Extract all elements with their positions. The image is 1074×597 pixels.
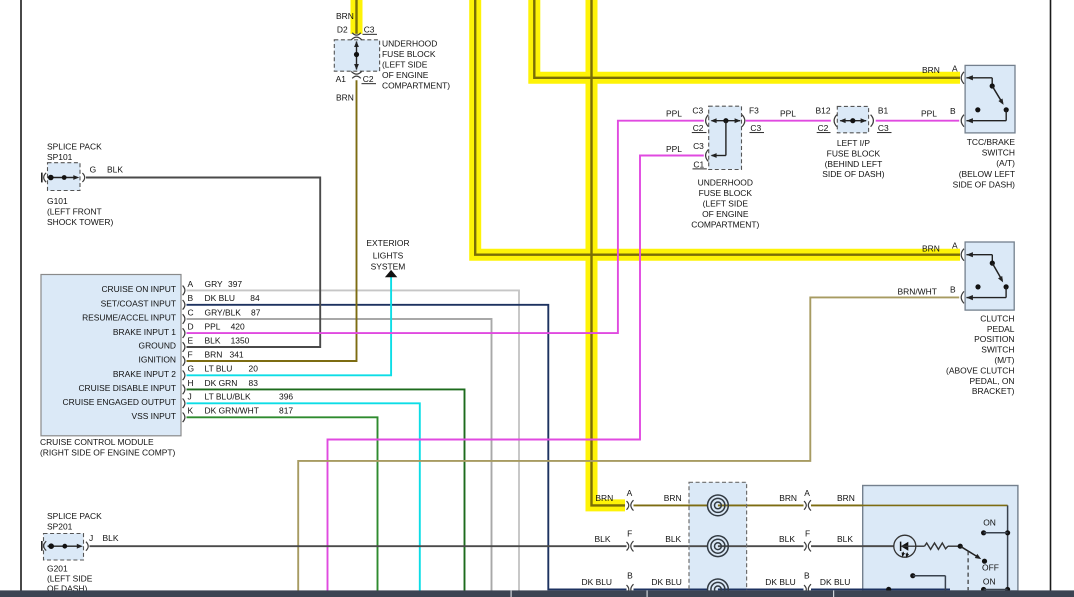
svg-text:CRUISE DISABLE INPUT: CRUISE DISABLE INPUT	[78, 383, 176, 393]
svg-text:PPL: PPL	[921, 109, 937, 119]
svg-text:C3: C3	[692, 106, 703, 116]
svg-text:LT BLU: LT BLU	[205, 364, 233, 374]
svg-text:420: 420	[231, 322, 245, 332]
svg-text:B: B	[950, 106, 956, 116]
svg-text:FUSE BLOCK: FUSE BLOCK	[382, 49, 436, 59]
svg-text:83: 83	[249, 378, 259, 388]
svg-text:(BEHIND LEFT: (BEHIND LEFT	[825, 159, 883, 169]
svg-text:FUSE BLOCK: FUSE BLOCK	[699, 188, 753, 198]
svg-text:G201: G201	[47, 564, 68, 574]
svg-text:SWITCH: SWITCH	[981, 345, 1014, 355]
svg-text:DK BLU: DK BLU	[820, 577, 850, 587]
svg-text:SPLICE PACK: SPLICE PACK	[47, 511, 102, 521]
svg-text:87: 87	[251, 307, 261, 317]
svg-text:EXTERIOR: EXTERIOR	[366, 238, 409, 248]
svg-text:SIDE OF DASH): SIDE OF DASH)	[822, 169, 885, 179]
svg-text:PEDAL, ON: PEDAL, ON	[969, 376, 1014, 386]
svg-text:BLK: BLK	[595, 534, 611, 544]
svg-text:341: 341	[230, 349, 244, 359]
svg-text:BLK: BLK	[103, 533, 119, 543]
svg-text:20: 20	[249, 364, 259, 374]
svg-text:BRN: BRN	[336, 11, 354, 21]
svg-text:PPL: PPL	[205, 322, 221, 332]
svg-text:K: K	[188, 406, 194, 416]
svg-text:(LEFT FRONT: (LEFT FRONT	[47, 206, 102, 216]
svg-text:(A/T): (A/T)	[996, 158, 1015, 168]
svg-text:BRAKE INPUT 1: BRAKE INPUT 1	[113, 327, 176, 337]
svg-text:BLK: BLK	[837, 534, 853, 544]
svg-text:BRN/WHT: BRN/WHT	[898, 286, 937, 296]
svg-text:ON: ON	[983, 576, 996, 586]
svg-text:DK BLU: DK BLU	[205, 293, 235, 303]
svg-text:G: G	[188, 364, 195, 374]
svg-text:SYSTEM: SYSTEM	[371, 261, 406, 271]
svg-text:SPLICE PACK: SPLICE PACK	[47, 142, 102, 152]
svg-text:A: A	[627, 488, 633, 498]
svg-text:B: B	[627, 571, 633, 581]
svg-text:B: B	[188, 293, 194, 303]
svg-text:CLUTCH: CLUTCH	[980, 313, 1014, 323]
svg-text:A: A	[188, 279, 194, 289]
svg-text:397: 397	[228, 279, 242, 289]
svg-text:BRN: BRN	[837, 493, 855, 503]
svg-text:C3: C3	[750, 123, 761, 133]
svg-text:D: D	[188, 322, 194, 332]
svg-text:CRUISE ON INPUT: CRUISE ON INPUT	[101, 284, 176, 294]
svg-text:C2: C2	[818, 123, 829, 133]
svg-text:817: 817	[279, 406, 293, 416]
svg-text:B12: B12	[816, 106, 831, 116]
svg-text:UNDERHOOD: UNDERHOOD	[698, 177, 753, 187]
svg-text:FUSE BLOCK: FUSE BLOCK	[827, 148, 881, 158]
svg-text:BRN: BRN	[664, 493, 682, 503]
svg-text:C2: C2	[363, 74, 374, 84]
svg-text:SET/COAST INPUT: SET/COAST INPUT	[101, 299, 176, 309]
svg-text:DK BLU: DK BLU	[582, 577, 612, 587]
svg-text:E: E	[188, 335, 194, 345]
svg-text:OFF: OFF	[982, 563, 999, 573]
svg-text:C: C	[188, 307, 194, 317]
svg-text:PPL: PPL	[666, 144, 682, 154]
svg-text:COMPARTMENT): COMPARTMENT)	[691, 220, 759, 230]
svg-text:A: A	[952, 64, 958, 74]
svg-text:SWITCH: SWITCH	[982, 148, 1015, 158]
svg-text:GRY/BLK: GRY/BLK	[205, 307, 242, 317]
svg-text:C2: C2	[693, 123, 704, 133]
svg-text:IGNITION: IGNITION	[139, 355, 177, 365]
svg-text:F: F	[805, 529, 810, 539]
svg-text:OF ENGINE: OF ENGINE	[382, 70, 429, 80]
svg-text:C1: C1	[693, 159, 704, 169]
svg-text:UNDERHOOD: UNDERHOOD	[382, 39, 437, 49]
svg-text:SP201: SP201	[47, 521, 73, 531]
svg-text:BRN: BRN	[779, 493, 797, 503]
svg-text:SIDE OF DASH): SIDE OF DASH)	[953, 179, 1016, 189]
svg-text:H: H	[188, 378, 194, 388]
svg-text:BRN: BRN	[595, 493, 613, 503]
svg-text:PEDAL: PEDAL	[987, 324, 1015, 334]
svg-text:J: J	[89, 533, 93, 543]
svg-text:BRN: BRN	[336, 93, 354, 103]
svg-text:LEFT I/P: LEFT I/P	[837, 138, 871, 148]
svg-text:A1: A1	[336, 74, 347, 84]
svg-text:ON: ON	[983, 518, 996, 528]
svg-text:396: 396	[279, 392, 293, 402]
svg-text:PPL: PPL	[780, 109, 796, 119]
svg-text:C3: C3	[693, 141, 704, 151]
svg-text:GRY: GRY	[205, 279, 224, 289]
svg-text:J: J	[188, 392, 192, 402]
svg-text:B: B	[804, 571, 810, 581]
svg-text:(RIGHT SIDE OF ENGINE COMPT): (RIGHT SIDE OF ENGINE COMPT)	[40, 448, 176, 458]
svg-text:TCC/BRAKE: TCC/BRAKE	[967, 137, 1016, 147]
svg-text:CRUISE ENGAGED OUTPUT: CRUISE ENGAGED OUTPUT	[63, 397, 176, 407]
svg-text:A: A	[952, 240, 958, 250]
svg-text:CRUISE CONTROL MODULE: CRUISE CONTROL MODULE	[40, 437, 154, 447]
svg-text:DK GRN/WHT: DK GRN/WHT	[205, 406, 259, 416]
svg-text:SP101: SP101	[47, 152, 73, 162]
svg-text:(M/T): (M/T)	[994, 355, 1014, 365]
svg-text:C3: C3	[364, 25, 375, 35]
svg-text:(LEFT SIDE: (LEFT SIDE	[382, 60, 428, 70]
svg-text:RESUME/ACCEL INPUT: RESUME/ACCEL INPUT	[82, 313, 176, 323]
svg-text:COMPARTMENT): COMPARTMENT)	[382, 81, 450, 91]
svg-text:BRACKET): BRACKET)	[972, 386, 1015, 396]
svg-text:VSS INPUT: VSS INPUT	[131, 411, 176, 421]
svg-text:DK GRN: DK GRN	[205, 378, 238, 388]
svg-text:DK BLU: DK BLU	[765, 577, 795, 587]
svg-text:G: G	[90, 165, 97, 175]
svg-text:(ABOVE CLUTCH: (ABOVE CLUTCH	[946, 365, 1014, 375]
svg-text:F3: F3	[749, 106, 759, 116]
svg-text:B1: B1	[878, 106, 889, 116]
svg-text:BRN: BRN	[922, 243, 940, 253]
svg-text:OF ENGINE: OF ENGINE	[702, 209, 749, 219]
svg-text:DK BLU: DK BLU	[651, 577, 681, 587]
svg-text:D2: D2	[337, 25, 348, 35]
svg-text:F: F	[188, 349, 193, 359]
svg-text:LT BLU/BLK: LT BLU/BLK	[205, 392, 251, 402]
svg-text:G101: G101	[47, 196, 68, 206]
svg-text:(BELOW LEFT: (BELOW LEFT	[959, 169, 1015, 179]
svg-text:BLK: BLK	[779, 534, 795, 544]
svg-text:BRAKE INPUT 2: BRAKE INPUT 2	[113, 369, 176, 379]
svg-text:BLK: BLK	[107, 165, 123, 175]
svg-text:LIGHTS: LIGHTS	[373, 250, 404, 260]
svg-text:1350: 1350	[231, 335, 250, 345]
svg-text:BLK: BLK	[665, 534, 681, 544]
svg-text:POSITION: POSITION	[974, 334, 1014, 344]
svg-text:A: A	[804, 488, 810, 498]
svg-text:(LEFT SIDE: (LEFT SIDE	[703, 199, 749, 209]
svg-text:C3: C3	[878, 123, 889, 133]
svg-text:GROUND: GROUND	[139, 341, 177, 351]
svg-text:84: 84	[250, 293, 260, 303]
svg-text:BRN: BRN	[922, 65, 940, 75]
svg-text:SHOCK TOWER): SHOCK TOWER)	[47, 217, 113, 227]
svg-text:PPL: PPL	[666, 109, 682, 119]
svg-text:B: B	[950, 284, 956, 294]
svg-text:BLK: BLK	[205, 335, 221, 345]
svg-text:F: F	[627, 529, 632, 539]
svg-text:BRN: BRN	[205, 349, 223, 359]
svg-text:(LEFT SIDE: (LEFT SIDE	[47, 574, 93, 584]
